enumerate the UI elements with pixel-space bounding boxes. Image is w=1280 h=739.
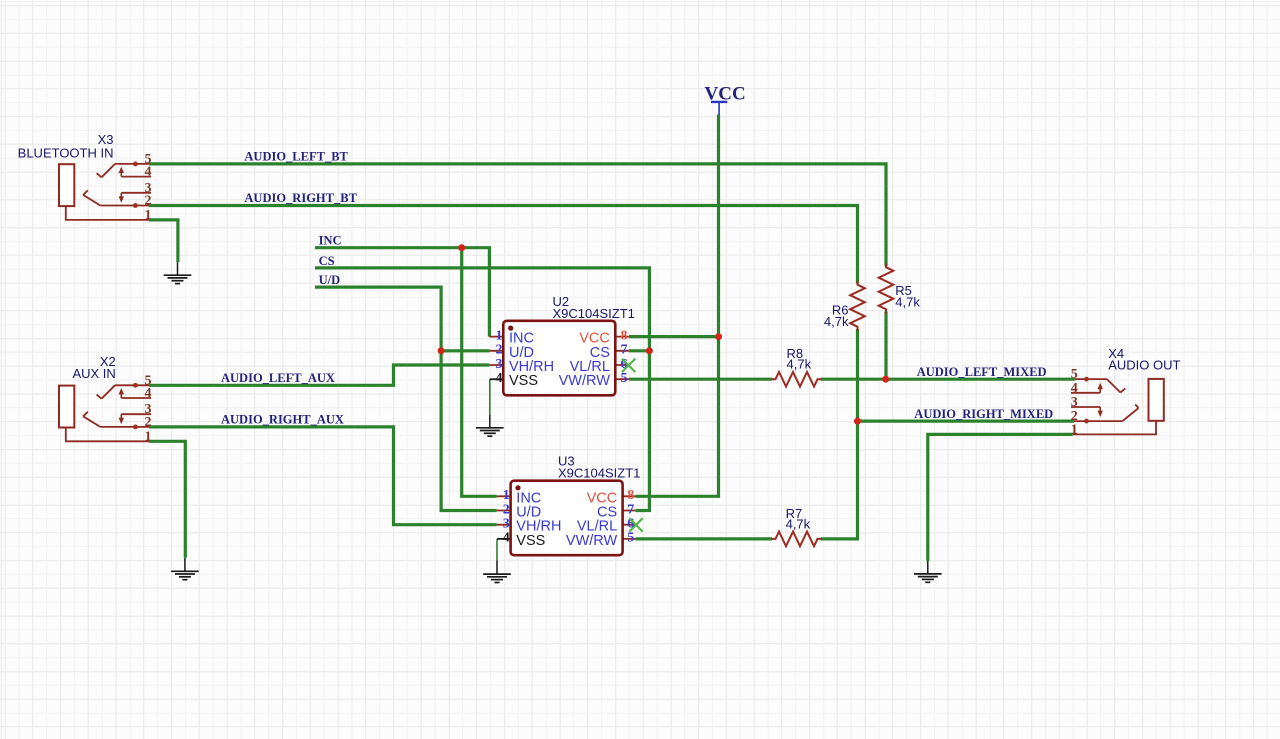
wire U2 pin5 to R8 left	[629, 378, 772, 381]
svg-text:VSS: VSS	[516, 533, 545, 549]
wire R7 right to AUDIO_RIGHT_MIXED junction	[821, 421, 858, 539]
wire X2 pin1 to GND	[149, 441, 185, 558]
U3 pin stub 4	[497, 538, 511, 540]
svg-text:4: 4	[503, 531, 510, 546]
X2 pin 5	[115, 384, 149, 386]
wire AUDIO_LEFT_AUX (X2 pin5 to U2 pin3)	[149, 365, 489, 385]
svg-text:AUDIO_LEFT_BT: AUDIO_LEFT_BT	[244, 150, 348, 164]
svg-text:7: 7	[627, 502, 634, 517]
ground at X2	[171, 558, 199, 580]
power symbol VCC	[705, 84, 746, 115]
junction INC net	[458, 244, 465, 251]
wire net CS stub to U3 pin7	[315, 268, 649, 511]
U3 body	[511, 481, 623, 556]
X4 pin 3	[1071, 406, 1100, 408]
svg-text:5: 5	[621, 371, 628, 386]
X4 pin 5	[1075, 378, 1107, 380]
svg-text:3: 3	[503, 517, 510, 532]
no-connect X on U3 pin6	[629, 518, 642, 531]
X3 pin 2	[100, 205, 149, 207]
X3 pin 1	[66, 206, 149, 220]
wire X3 pin1 to GND	[149, 220, 178, 262]
wire U3 pin5 to R7 left	[636, 537, 772, 540]
X4 body	[1149, 379, 1164, 421]
U3 pin1 marker	[515, 485, 520, 490]
resistor R7 4,7k	[772, 506, 822, 546]
U3 pin stubs left 1-3	[497, 496, 511, 524]
U2 body	[503, 321, 615, 396]
svg-text:3: 3	[1071, 395, 1078, 410]
junction AUDIO_LEFT_MIXED at R5/R8	[882, 376, 889, 383]
wire X4 pin1 to GND	[928, 434, 1073, 561]
U2 pin stubs right 8-5	[615, 337, 629, 380]
X3 pin 4	[121, 176, 151, 178]
wire net INC stub to U2 pin1	[315, 248, 489, 337]
connector X2 AUX IN	[59, 354, 152, 444]
svg-text:7: 7	[621, 343, 628, 358]
wire AUDIO_LEFT_BT (X3 pin5 to R5 top)	[149, 164, 886, 266]
svg-text:VW/RW: VW/RW	[566, 533, 618, 549]
wire net CS branch to U2 pin7	[629, 349, 650, 352]
svg-text:AUDIO_LEFT_AUX: AUDIO_LEFT_AUX	[221, 371, 335, 385]
ground at X4	[914, 561, 942, 582]
svg-text:3: 3	[496, 357, 503, 372]
U2 pin stub 4	[490, 378, 504, 380]
junction VCC at U2 pin8	[715, 333, 722, 340]
svg-text:AUDIO_LEFT_MIXED: AUDIO_LEFT_MIXED	[917, 365, 1047, 379]
svg-text:AUDIO_RIGHT_MIXED: AUDIO_RIGHT_MIXED	[914, 407, 1053, 421]
wire VCC rail to U3 pin8	[636, 115, 719, 497]
svg-text:AUDIO_RIGHT_AUX: AUDIO_RIGHT_AUX	[221, 413, 344, 427]
svg-text:AUDIO OUT: AUDIO OUT	[1108, 357, 1180, 372]
X2 pin 3	[121, 413, 151, 415]
resistor R6 4,7k	[824, 281, 865, 331]
svg-text:4,7k: 4,7k	[895, 295, 920, 310]
svg-text:INC: INC	[319, 234, 342, 248]
svg-text:VSS: VSS	[509, 373, 538, 389]
X2 pin 4	[121, 397, 151, 399]
wire AUDIO_RIGHT_MIXED (junction to X4 pin2)	[858, 420, 1075, 423]
X4 pin 4	[1071, 392, 1100, 394]
svg-text:X9C104SIZT1: X9C104SIZT1	[553, 306, 635, 321]
svg-text:CS: CS	[319, 254, 335, 268]
X3 pin 5	[115, 163, 149, 165]
X4 pin 1	[1073, 421, 1156, 434]
svg-text:8: 8	[621, 328, 628, 343]
ground at X3	[164, 262, 192, 283]
svg-text:U/D: U/D	[319, 273, 341, 287]
svg-text:VW/RW: VW/RW	[559, 373, 611, 389]
svg-text:4,7k: 4,7k	[787, 356, 812, 371]
U2 pin1 marker	[508, 326, 513, 331]
svg-text:2: 2	[145, 194, 152, 209]
svg-text:X9C104SIZT1: X9C104SIZT1	[558, 466, 640, 481]
wire U2 pin8 to VCC rail	[629, 335, 719, 338]
U3 pin stubs right 8-5	[622, 496, 636, 539]
svg-text:2: 2	[496, 343, 503, 358]
IC U2 X9C104SIZT1 digital potentiometer	[489, 294, 634, 395]
svg-text:2: 2	[503, 502, 510, 517]
svg-text:1: 1	[503, 488, 510, 503]
svg-text:8: 8	[627, 488, 634, 503]
svg-text:4: 4	[1071, 381, 1078, 396]
svg-text:AUX IN: AUX IN	[72, 366, 115, 381]
wire AUDIO_RIGHT_BT (X3 pin2 to R6 top)	[149, 206, 858, 284]
wire AUDIO_LEFT_MIXED (R8 right to X4 pin5)	[821, 378, 1075, 381]
wire U2 pin4 to GND (thin)	[489, 379, 491, 415]
X4 pin 2	[1074, 420, 1122, 422]
wire net U/D branch to U2 pin2	[441, 349, 489, 352]
wire net U/D stub to U3 pin2	[315, 287, 497, 510]
X2 body	[59, 386, 74, 428]
svg-text:BLUETOOTH IN: BLUETOOTH IN	[18, 146, 114, 161]
svg-text:AUDIO_RIGHT_BT: AUDIO_RIGHT_BT	[244, 191, 357, 205]
resistor R8 4,7k	[772, 346, 822, 387]
svg-text:4,7k: 4,7k	[824, 314, 849, 329]
X3 body	[59, 164, 74, 206]
ground at U3 pin4	[483, 561, 511, 583]
no-connect X on U2 pin6	[622, 359, 635, 372]
wire AUDIO_RIGHT_AUX (X2 pin2 to U3 pin3)	[149, 427, 497, 525]
junction CS at U2 pin7	[646, 347, 653, 354]
svg-text:1: 1	[496, 328, 503, 343]
X3 pin 3	[121, 192, 151, 194]
connector X4 AUDIO OUT	[1071, 346, 1181, 438]
resistor R5 4,7k	[879, 263, 921, 313]
connector X3 BLUETOOTH IN	[18, 132, 152, 223]
junction U/D at U2 pin2	[438, 347, 445, 354]
wire R6 bottom to AUDIO_RIGHT_MIXED junction	[856, 329, 859, 421]
IC U3 X9C104SIZT1 digital potentiometer	[497, 454, 641, 556]
svg-text:5: 5	[627, 531, 634, 546]
X2 pin 2	[100, 426, 149, 428]
wire R5 bottom to AUDIO_LEFT_MIXED junction	[884, 312, 887, 380]
svg-text:4: 4	[145, 165, 152, 180]
wire U3 pin4 to GND (thin)	[496, 539, 498, 560]
svg-text:1: 1	[145, 208, 152, 223]
ground at U2 pin4	[476, 415, 504, 436]
wire net INC branch to U3 pin1	[462, 248, 497, 497]
U2 pin stubs left 1-3	[489, 337, 503, 365]
svg-text:4: 4	[145, 386, 152, 401]
svg-text:4,7k: 4,7k	[786, 517, 811, 532]
svg-text:2: 2	[145, 415, 152, 430]
X2 pin 1	[66, 428, 149, 442]
svg-text:1: 1	[1071, 422, 1078, 437]
svg-text:4: 4	[496, 371, 503, 386]
svg-text:1: 1	[145, 429, 152, 444]
junction AUDIO_RIGHT_MIXED at R6/R7	[854, 418, 861, 425]
